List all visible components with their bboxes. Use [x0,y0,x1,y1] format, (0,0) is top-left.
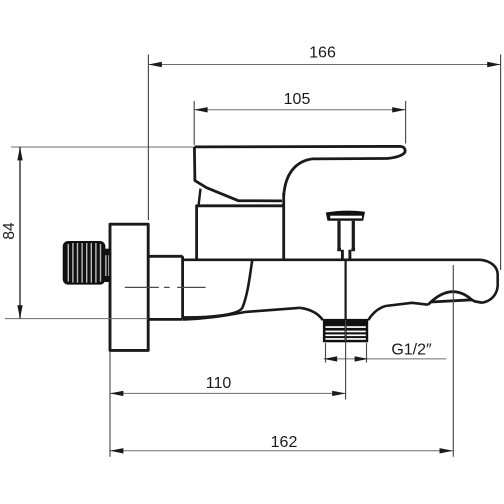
dimension 162 extension right (through aerator) [452,265,454,457]
svg-text:166: 166 [309,45,336,62]
svg-text:105: 105 [284,91,311,108]
dimension 166 extension right [500,55,502,271]
diverter stem [337,221,355,250]
dimension 162 line [110,450,453,452]
wall plate (escutcheon) [110,224,148,350]
dimension 166 line [148,64,500,66]
svg-text:84: 84 [1,222,18,240]
body right edge (spout tip) [481,260,498,303]
arrow 110 right [332,391,345,396]
arrowheads [17,62,500,454]
arrow 110 left [110,391,123,396]
thin horizontal dimension lines [5,65,501,451]
connector between plate and body [147,256,183,319]
dimension 110 line [110,392,346,394]
arrow 166 right [487,62,500,67]
svg-text:162: 162 [271,434,298,451]
svg-text:G1/2″: G1/2″ [391,341,432,358]
arrow 162 right [440,448,453,453]
handle lever [194,146,405,201]
diverter nipple [342,250,350,260]
body top edge [183,258,481,261]
G1/2 dimension line [324,358,447,360]
bottom outlet thread (knurled) [323,319,368,342]
dimension 166 extension left [147,55,149,221]
cartridge block [197,193,284,259]
diverter rod inside body [345,260,347,320]
diverter knob cap [326,211,365,221]
arrow 105 left [194,107,207,112]
spout inner fillet curve [184,260,253,318]
arrow G1/2 left [324,356,337,361]
wall plane extension line (left of 110/162) [109,352,111,457]
arrow 105 right [392,107,405,112]
outlet centerline vertical [345,320,347,400]
aerator lens arc [431,292,472,302]
shower hose connector knob (knurled, left) [63,241,111,285]
arrow 162 left [110,448,123,453]
spout bottom right of outlet [386,303,429,306]
dimension 84 line [19,147,21,319]
arrow 84 top [17,147,22,160]
svg-text:110: 110 [206,375,232,392]
dimension 105 extension left [193,101,195,145]
handle skirt edge [199,189,201,205]
arrow 84 bottom [17,305,22,318]
arrow G1/2 right [355,356,368,361]
dimension 105 line [194,109,405,111]
thin vertical extension lines [20,55,501,457]
outlet valley curves [300,306,385,320]
G1/2 extension lines [326,343,367,363]
spout axis centerline [125,286,206,288]
dimension 105 extension right [405,101,407,144]
dimension 84 extension bottom [5,318,148,320]
arrow 166 left [148,62,161,67]
spout bottom contour left of outlet [183,308,300,320]
dimension 84 extension top [11,146,193,148]
handle neck curve [284,159,312,196]
aerator lens chord [428,300,483,305]
